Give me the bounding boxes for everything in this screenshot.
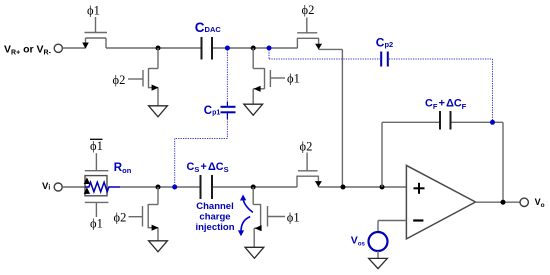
wire feedback left leg: [382, 122, 440, 187]
capacitor Cp2 (parasitic, blue): [381, 52, 388, 67]
voltage source Vos: [369, 232, 388, 251]
node A junction (top row x=158): [156, 46, 161, 51]
node I junction (382,187): [380, 185, 385, 190]
svg-text:ϕ1: ϕ1: [90, 139, 103, 153]
wire dashed node D to Cp2: [269, 50, 380, 59]
capacitor C_DAC: [202, 37, 213, 60]
wire M1 drain to node A: [106, 47, 201, 49]
ground (M6): [245, 247, 264, 258]
transistor M2 phi2 shunt to ground (top-left): [128, 48, 159, 106]
svg-text:CS+ΔCS: CS+ΔCS: [187, 161, 229, 174]
input terminal Vi: [54, 183, 62, 191]
transistor M6 phi1 shunt to ground (bottom): [253, 187, 285, 248]
wire Vos to ground: [377, 251, 379, 259]
svg-text:ϕ1: ϕ1: [287, 72, 300, 86]
annotation channel charge injection: [195, 201, 234, 233]
wire M7 drain to op-amp + input: [318, 186, 406, 188]
capacitor C_F: [440, 111, 451, 130]
ground (M2): [149, 106, 168, 117]
transistor M1 phi1 series switch top-left: [82, 17, 107, 49]
transistor M3 phi1 shunt to ground (top): [253, 48, 285, 105]
ground (M5): [149, 241, 168, 252]
label phi1-bar (T-gate top): [90, 139, 103, 153]
node D blue junction (269,48): [267, 46, 272, 51]
svg-text:charge: charge: [199, 212, 230, 223]
wire M4 drain down to op-amp input row: [319, 49, 343, 187]
ground (M3): [244, 104, 263, 115]
wire op-amp output: [476, 201, 521, 203]
wire op-amp minus input to Vos: [378, 221, 406, 233]
capacitor C_S: [201, 175, 213, 199]
svg-text:ϕ1: ϕ1: [87, 3, 100, 17]
capacitor Cp1 (parasitic, blue): [221, 107, 236, 113]
input terminal VR: [54, 44, 62, 52]
svg-text:ϕ1: ϕ1: [90, 217, 103, 231]
transmission gate switch (Ron): [85, 153, 109, 217]
node H junction (343,187): [341, 185, 346, 190]
node F blue junction (175,187): [172, 185, 177, 190]
wire VR terminal to M1 source: [63, 47, 86, 49]
transistor M7 phi2 series switch bottom: [296, 153, 322, 188]
transistor M4 phi2 series switch top-right: [297, 18, 322, 50]
svg-text:ϕ2: ϕ2: [300, 139, 313, 153]
arrow charge injection up: [240, 195, 253, 213]
node B blue junction (227,48): [225, 46, 230, 51]
wire dashed node B down to Cp1: [226, 50, 228, 103]
svg-text:injection: injection: [195, 222, 234, 233]
wire feedback right leg to output: [452, 122, 504, 202]
wire dashed Cp2 to output node: [389, 59, 493, 121]
svg-text:ϕ2: ϕ2: [113, 73, 126, 87]
wire Vi terminal to transmission gate: [62, 186, 86, 188]
resistor Ron zigzag (blue): [85, 182, 120, 192]
output terminal Vo: [520, 198, 528, 206]
ground (Vos): [369, 258, 388, 268]
arrow charge injection down: [238, 217, 250, 237]
wire dashed Cp1 to bottom node (down, left, down): [175, 112, 228, 186]
svg-text:ϕ2: ϕ2: [302, 3, 315, 17]
transistor M5 phi2 shunt to ground (bottom-left): [129, 187, 159, 241]
svg-text:ϕ1: ϕ1: [287, 210, 300, 224]
svg-text:ϕ2: ϕ2: [114, 211, 127, 225]
svg-text:CF+ΔCF: CF+ΔCF: [425, 98, 467, 111]
wire T-gate to C_S: [120, 186, 200, 188]
op-amp U1: [406, 165, 475, 239]
wire C_S to M7 source: [213, 186, 297, 188]
node E junction (158,187): [156, 185, 161, 190]
node K output junction (503,201.5): [501, 200, 506, 205]
label VR+ or VR-: [4, 44, 52, 57]
svg-text:Channel: Channel: [196, 201, 233, 212]
wire C_DAC right plate to node B: [213, 47, 297, 49]
node C junction (253,48): [251, 46, 256, 51]
node J blue junction (492.5,122.3): [490, 120, 495, 125]
node G junction (253,187): [251, 185, 256, 190]
